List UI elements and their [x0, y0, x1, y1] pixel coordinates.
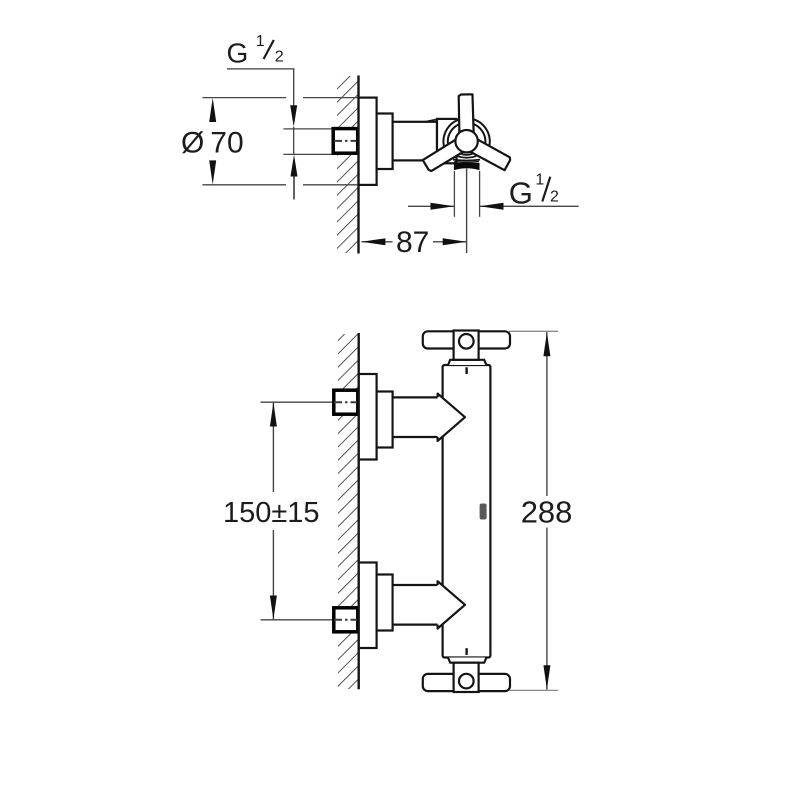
label G1/2 slash	[264, 40, 274, 59]
lower escutcheon	[359, 563, 377, 649]
dimension 87 arrow right	[443, 238, 467, 245]
outlet dark band	[454, 163, 480, 170]
upper nipple centerline dash-dot	[334, 401, 357, 403]
svg-text:70: 70	[210, 126, 243, 159]
dimension 150±15 line lower segment	[272, 530, 274, 620]
dimension G1/2 (right) line right part	[480, 205, 579, 207]
dimension 288 line lower segment	[546, 528, 548, 690]
lower connection pipe	[394, 585, 438, 625]
upper flange step	[377, 392, 393, 448]
grohe logo mark on bar	[480, 504, 487, 520]
upper union nipple (thick thread edges)	[334, 390, 358, 414]
bonnet housing	[437, 119, 457, 163]
supply nipple (top view, thick thread edges)	[333, 129, 358, 154]
dimension 150±15 arrow down	[270, 596, 277, 620]
handle skirt plate	[453, 159, 480, 162]
handle spoke lower-left	[463, 135, 511, 170]
dimension 288 line upper segment	[546, 332, 548, 496]
line between thread lines	[293, 127, 295, 155]
upper escutcheon	[359, 374, 377, 460]
top handle circle	[459, 334, 474, 349]
arrow tail below	[293, 177, 295, 200]
G1/2 arrow up to nipple bottom	[291, 155, 298, 177]
upper union cone	[438, 394, 465, 441]
outlet extension line right	[479, 171, 481, 217]
handle spoke up	[459, 94, 474, 141]
G1/2 thread extension line lower	[283, 153, 331, 155]
top handle block	[454, 331, 479, 360]
svg-text:G: G	[509, 175, 533, 210]
dimension Ø70 extension line bottom	[202, 184, 358, 186]
wall line (front view)	[358, 333, 360, 689]
dimension 288 extension line top	[509, 330, 558, 332]
lower union nipple (thick thread edges)	[334, 608, 358, 632]
centerline / extension lower union	[261, 619, 333, 621]
svg-text:2: 2	[550, 189, 559, 206]
G1/2 thread extension line upper	[283, 128, 331, 130]
dimension 87 line right segment with arrow	[433, 241, 467, 243]
dimension Ø70 extension line top	[202, 97, 358, 99]
svg-text:1: 1	[535, 172, 544, 189]
svg-text:288: 288	[521, 495, 573, 530]
bonnet chamfer top	[425, 119, 438, 122]
lower union cone	[438, 581, 465, 628]
top cap trapezoid	[448, 360, 486, 365]
wall hatch (top view)	[337, 76, 358, 253]
handle skirt arc 1	[459, 153, 474, 155]
dimension 87 line left segment with arrow	[362, 241, 393, 243]
bottom index tick	[465, 648, 467, 655]
upper connection pipe	[394, 397, 438, 437]
bottom cap trapezoid	[448, 658, 486, 663]
bottom handle block	[454, 663, 479, 692]
dimension 150±15 arrow up	[270, 403, 277, 427]
lower nipple centerline dash-dot	[334, 619, 357, 621]
outlet extension line left	[453, 171, 455, 217]
handle hub circle	[455, 130, 477, 152]
svg-text:2: 2	[275, 49, 284, 66]
label G1/2 (right) slash	[542, 177, 550, 202]
dimension Ø70 arrow down	[209, 160, 216, 184]
top handle bar	[423, 331, 510, 348]
svg-text:87: 87	[396, 226, 429, 259]
dimension 288 extension line bottom	[509, 689, 558, 691]
flange step (top view)	[377, 114, 393, 170]
handle spoke lower-right	[422, 135, 470, 172]
outlet centerline	[466, 169, 468, 254]
G1/2 arrow down to nipple top	[290, 105, 297, 127]
handle inner ring arc	[448, 123, 486, 151]
escutcheon (top view)	[359, 98, 377, 185]
bottom handle bar	[423, 674, 510, 691]
dimension 150±15 line upper segment	[272, 402, 274, 492]
svg-text:Ø: Ø	[181, 126, 204, 159]
dimension 87 arrow left	[362, 238, 386, 245]
dimension G1/2 (right) arrow left-pointing	[480, 203, 504, 210]
nipple centerline (dash-dot)	[334, 140, 357, 142]
handle outer ring arc	[443, 118, 489, 149]
top index tick	[465, 367, 467, 374]
leader line under G1/2 label	[227, 69, 294, 106]
dimension Ø70 arrow up	[209, 98, 216, 122]
svg-text:150±15: 150±15	[223, 497, 320, 529]
dimension 288 arrow down	[543, 665, 550, 689]
lower flange step	[377, 575, 393, 631]
handle skirt arc 2	[457, 156, 476, 158]
svg-text:1: 1	[256, 33, 265, 50]
handle skirt arc 3	[454, 161, 479, 164]
valve body (top view)	[393, 122, 437, 161]
dimension G1/2 (right) arrow right-pointing	[431, 203, 455, 210]
dimension 288 arrow up	[543, 332, 550, 356]
wall hatch (front view)	[338, 334, 359, 689]
main thermostat bar body	[443, 365, 491, 658]
dimension G1/2 (right) line left part	[408, 205, 454, 207]
bottom handle circle	[459, 674, 474, 689]
centerline / extension upper union	[261, 401, 333, 403]
svg-text:G: G	[227, 38, 249, 69]
wall line (top view)	[357, 76, 359, 254]
